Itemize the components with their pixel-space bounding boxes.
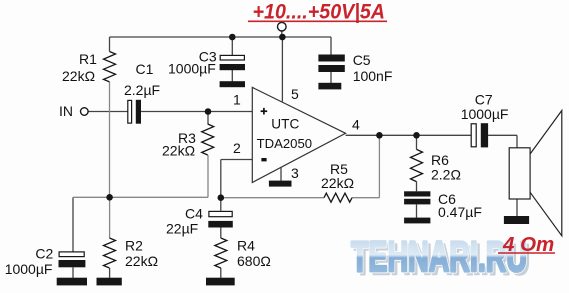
svg-text:TEHNARI.RU: TEHNARI.RU bbox=[351, 233, 527, 281]
svg-text:2.2µF: 2.2µF bbox=[124, 82, 160, 98]
svg-text:100nF: 100nF bbox=[353, 68, 393, 84]
svg-text:R2: R2 bbox=[125, 238, 143, 254]
svg-text:1000µF: 1000µF bbox=[168, 61, 216, 77]
svg-text:IN: IN bbox=[59, 103, 73, 119]
svg-text:C2: C2 bbox=[35, 246, 53, 262]
svg-text:3: 3 bbox=[291, 165, 299, 181]
svg-text:2: 2 bbox=[233, 140, 241, 156]
svg-text:22kΩ: 22kΩ bbox=[162, 143, 195, 159]
svg-text:4: 4 bbox=[352, 117, 360, 133]
svg-text:C1: C1 bbox=[136, 61, 154, 77]
svg-text:1: 1 bbox=[233, 92, 241, 108]
svg-text:C5: C5 bbox=[353, 52, 371, 68]
svg-text:+10....+50V|5A: +10....+50V|5A bbox=[253, 1, 386, 24]
svg-text:C4: C4 bbox=[185, 206, 203, 222]
svg-text:TDA2050: TDA2050 bbox=[257, 136, 313, 151]
svg-text:22µF: 22µF bbox=[166, 221, 198, 237]
svg-text:UTC: UTC bbox=[271, 116, 299, 132]
svg-text:2.2Ω: 2.2Ω bbox=[431, 167, 461, 183]
svg-text:R4: R4 bbox=[237, 238, 255, 254]
svg-text:0.47µF: 0.47µF bbox=[438, 204, 482, 220]
svg-text:680Ω: 680Ω bbox=[237, 253, 271, 269]
svg-text:22kΩ: 22kΩ bbox=[62, 68, 95, 84]
svg-text:1000µF: 1000µF bbox=[461, 106, 509, 122]
svg-text:1000µF: 1000µF bbox=[5, 261, 53, 277]
svg-text:5: 5 bbox=[291, 86, 299, 102]
svg-text:R1: R1 bbox=[79, 51, 97, 67]
svg-text:22kΩ: 22kΩ bbox=[321, 175, 354, 191]
svg-text:22kΩ: 22kΩ bbox=[125, 253, 158, 269]
